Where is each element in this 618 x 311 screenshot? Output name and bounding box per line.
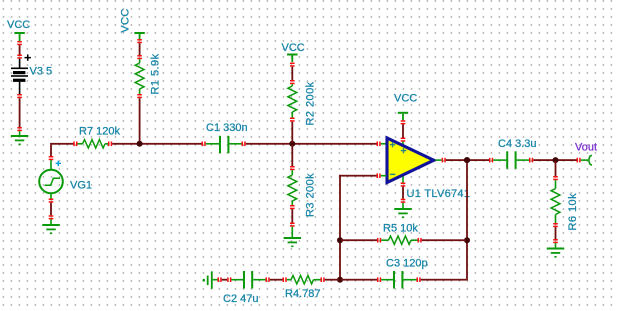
wire C4 to Vout (through node) <box>533 159 576 161</box>
pin ticks R5 right <box>418 238 422 243</box>
pin ticks VG1 bottom <box>49 199 54 203</box>
wire inverting input horizontal <box>339 175 376 177</box>
pin ticks R2 top <box>290 80 295 84</box>
pin ticks C2 plates left <box>227 277 231 282</box>
Vout terminal bracket <box>589 155 592 165</box>
svg-text:C2 47u: C2 47u <box>223 293 258 305</box>
pin ticks C1 left <box>202 142 206 147</box>
pin ticks VG1 top <box>49 156 54 160</box>
op-amp - input mark <box>390 174 395 176</box>
pin ticks U1 VCC pin <box>401 138 406 142</box>
wire node to C3 <box>341 279 377 281</box>
node junction C3/R4 <box>337 277 343 283</box>
capacitor C2 polarized plates <box>207 271 218 289</box>
ground (VG1) <box>42 224 59 234</box>
ground (R6) <box>547 248 564 258</box>
pin ticks V3 bottom <box>17 94 22 98</box>
pin ticks R1 top <box>137 39 142 43</box>
op-amp internal + mark <box>401 148 406 153</box>
pin ticks ground VG1 <box>49 215 54 219</box>
pin ticks ground R6 <box>553 239 558 243</box>
ground (R3) <box>284 237 301 247</box>
VG1 plus mark <box>56 161 61 166</box>
wire R5 to right node <box>422 239 466 241</box>
op-amp U1 triangle <box>387 138 434 183</box>
pin ticks R2 top wire <box>290 63 295 67</box>
svg-text:C1 330n: C1 330n <box>206 122 248 134</box>
pin ticks C3 left <box>377 277 381 282</box>
wire node to R5 <box>341 239 377 241</box>
pin ticks R6 bottom <box>553 223 558 227</box>
node junction output <box>464 157 470 163</box>
wire R7 to C1 (through node) <box>112 143 201 145</box>
pin ticks V3 top <box>17 41 22 45</box>
pin ticks U1 output <box>442 158 446 163</box>
wire C2 link <box>222 279 228 281</box>
wire U1 to ground <box>402 187 404 199</box>
wire R2 to node <box>291 122 293 143</box>
battery V3 <box>11 59 28 94</box>
pin ticks C1 right <box>242 142 246 147</box>
capacitor C4 <box>493 151 529 169</box>
pin ticks R3 top <box>290 166 295 170</box>
op-amp + input pin stub <box>381 143 387 145</box>
source VG1 <box>39 160 63 198</box>
svg-text:VCC: VCC <box>119 8 131 33</box>
wire C2 to R4 <box>270 279 283 281</box>
C2 open end dot <box>203 279 206 282</box>
svg-text:V3 5: V3 5 <box>30 66 53 78</box>
pin ticks C2 right <box>266 277 270 282</box>
pin ticks U1 gnd pin <box>401 183 406 187</box>
node junction R7/R1 <box>137 141 143 147</box>
pin ticks ground R3 <box>290 223 295 227</box>
pin ticks R1 bottom <box>137 94 142 98</box>
pin ticks R5 left <box>377 238 381 243</box>
node junction C4/R6 <box>553 157 559 163</box>
wire VCC to R1 <box>139 43 141 55</box>
wire output to C4 (through node) <box>446 159 489 161</box>
pin ticks R7 left <box>73 142 77 147</box>
pin ticks ground U1 <box>401 199 406 203</box>
wire inverting column vertical <box>339 175 341 281</box>
pin ticks C4 right <box>529 158 533 163</box>
U1 VCC pin stub <box>402 142 404 147</box>
U1 ground pin stub <box>402 177 404 183</box>
Vout terminal lead <box>581 159 589 161</box>
wire R4 to node <box>325 279 339 281</box>
node junction C1/R2/R3 <box>289 141 295 147</box>
pin ticks <box>137 55 142 59</box>
op-amp output pin stub <box>435 159 441 161</box>
pin ticks C2 left link <box>218 277 222 282</box>
op-amp - input pin stub <box>381 175 387 177</box>
resistor R4 <box>287 276 321 284</box>
wire R6 to ground <box>555 227 557 239</box>
node junction R5 right <box>464 237 470 243</box>
wire VCC to U1 <box>402 124 404 137</box>
resistor R3 <box>288 170 297 205</box>
ground stem R6 <box>555 243 557 247</box>
ground stem U1 <box>402 203 404 208</box>
battery V3 plus mark <box>25 54 31 60</box>
wire VCC to V3 <box>19 45 21 54</box>
resistor R6 <box>551 180 560 223</box>
svg-text:Vout: Vout <box>575 142 597 154</box>
resistor R1 <box>135 59 144 94</box>
svg-text:C4 3.3u: C4 3.3u <box>498 138 537 150</box>
wire rail corner to VG1 <box>50 145 52 156</box>
power VCC symbol (V3) <box>14 32 24 41</box>
wire VG1 corner to R7 <box>50 143 73 145</box>
wire output node down feedback column <box>466 159 468 280</box>
capacitor C2 <box>231 271 265 289</box>
pin ticks Vout terminal <box>577 158 581 163</box>
wire C3 to right column <box>421 279 466 281</box>
svg-text:R2 200k: R2 200k <box>305 81 317 125</box>
ground (U1) <box>394 208 411 218</box>
pin ticks R2 bottom <box>290 118 295 122</box>
svg-text:C3 120p: C3 120p <box>386 258 428 270</box>
pin ticks C3 right <box>417 277 421 282</box>
svg-text:U1 TLV6741: U1 TLV6741 <box>407 188 471 200</box>
wire C1 to op-amp + input (through node) <box>246 143 377 145</box>
svg-text:R7 120k: R7 120k <box>79 126 120 138</box>
op-amp + input mark <box>390 142 395 147</box>
resistor R2 <box>288 84 297 117</box>
svg-text:VG1: VG1 <box>70 180 92 192</box>
pin ticks R4 right <box>321 277 325 282</box>
pin ticks R3 bottom <box>290 205 295 209</box>
power VCC symbol (R2) <box>287 54 297 63</box>
power VCC symbol (R1) <box>134 32 144 39</box>
pin ticks R7 right <box>108 142 112 147</box>
wire node to R3 <box>291 145 293 166</box>
wire VCC to R2 <box>291 67 293 80</box>
svg-text:VCC: VCC <box>394 93 417 105</box>
svg-text:R4.787: R4.787 <box>285 288 320 300</box>
capacitor C1 <box>206 136 242 154</box>
svg-text:VCC: VCC <box>282 42 305 54</box>
wire R3 to ground <box>291 209 293 222</box>
resistor R5 <box>381 236 417 244</box>
power VCC symbol (U1) <box>398 112 408 120</box>
svg-text:R5 10k: R5 10k <box>383 223 418 235</box>
ground (V3) <box>11 135 28 145</box>
ground stem <box>19 131 21 135</box>
node junction R5 left <box>337 237 343 243</box>
pin ticks R6 top <box>553 176 558 180</box>
pin ticks U1 VCC wire top <box>401 120 406 124</box>
svg-text:R1 5.9k: R1 5.9k <box>150 53 162 94</box>
wire R1 to rail node <box>139 98 141 143</box>
pin ticks R4 left <box>283 277 287 282</box>
pin ticks op-amp + input <box>377 142 381 147</box>
resistor R7 <box>78 140 109 148</box>
ground stem VG1 <box>50 219 52 224</box>
svg-text:R3 200k: R3 200k <box>305 173 317 217</box>
svg-text:VCC: VCC <box>7 19 30 31</box>
pin ticks <box>17 127 22 131</box>
wire V3 to ground <box>19 98 21 127</box>
pin ticks <box>17 55 22 59</box>
capacitor C3 <box>381 271 416 289</box>
svg-text:R6 10k: R6 10k <box>567 193 579 231</box>
pin ticks C4 left <box>489 158 493 163</box>
ground stem R3 <box>292 227 294 237</box>
wire VG1 to ground <box>50 203 52 216</box>
pin ticks op-amp - input <box>377 173 381 178</box>
wire node to R6 <box>555 161 557 176</box>
